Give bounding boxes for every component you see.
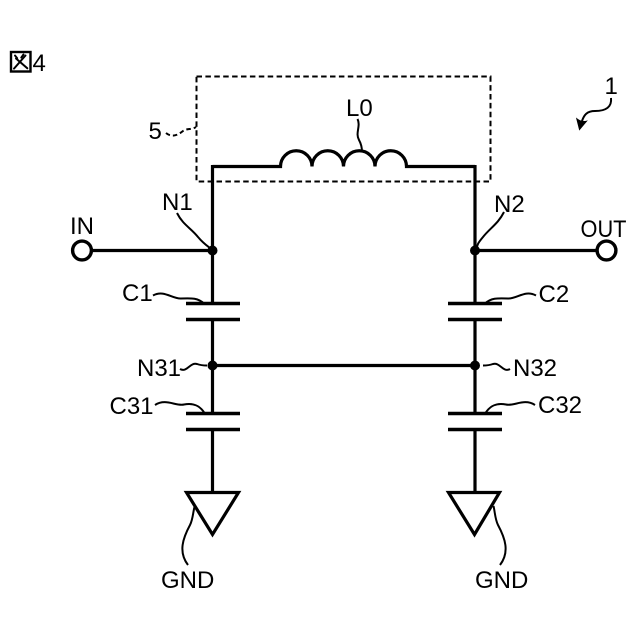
svg-text:4: 4 xyxy=(33,50,46,77)
svg-text:C32: C32 xyxy=(538,392,582,419)
svg-text:OUT: OUT xyxy=(581,216,627,243)
svg-text:GND: GND xyxy=(161,567,214,594)
svg-text:C2: C2 xyxy=(539,281,570,308)
svg-text:N2: N2 xyxy=(494,191,525,218)
svg-text:GND: GND xyxy=(475,567,528,594)
svg-text:C1: C1 xyxy=(122,280,153,307)
svg-text:N32: N32 xyxy=(513,355,557,382)
svg-text:N31: N31 xyxy=(137,355,181,382)
svg-text:5: 5 xyxy=(149,118,162,145)
svg-text:N1: N1 xyxy=(162,189,193,216)
svg-text:IN: IN xyxy=(70,213,94,240)
svg-text:L0: L0 xyxy=(346,95,373,122)
svg-text:C31: C31 xyxy=(110,393,154,420)
svg-text:1: 1 xyxy=(605,73,618,100)
